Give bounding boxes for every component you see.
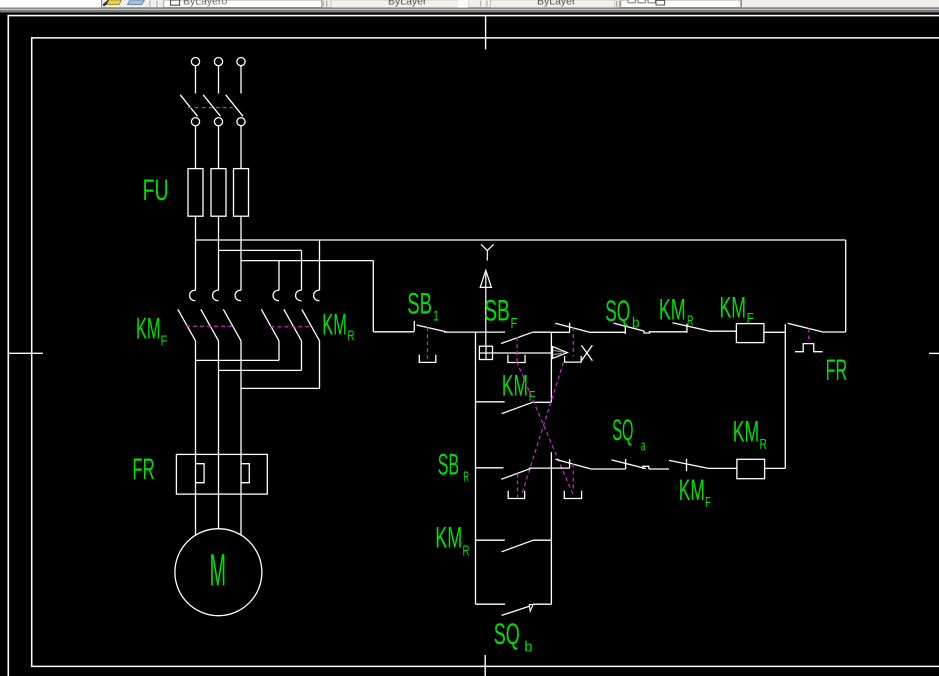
svg-text:FU: FU <box>143 174 169 207</box>
svg-text:KM: KM <box>733 416 760 449</box>
wire drop to KM_R middle contact <box>301 250 303 290</box>
SB_F NC actuator link (dashed) <box>572 464 574 491</box>
X snap marker <box>581 345 592 361</box>
start pushbutton SB_F (NO) <box>501 332 551 362</box>
contactor KM_F main contacts (3 poles) <box>178 290 241 341</box>
svg-text:ByLayer0: ByLayer0 <box>183 0 228 7</box>
SB_F actuator link (dashed) <box>516 337 518 362</box>
wire bus L2 horizontal <box>219 249 302 251</box>
svg-text:F: F <box>161 333 168 350</box>
SB_R actuator link (dashed) <box>517 474 519 498</box>
svg-text:R: R <box>760 436 768 453</box>
compound button SB_F NC contact (reverse branch) <box>555 459 625 498</box>
svg-text:ByLayer: ByLayer <box>388 0 427 7</box>
svg-text:FR: FR <box>133 453 155 486</box>
wire bus L3 horizontal <box>241 260 373 262</box>
knife switch QS blades and stubs <box>180 66 243 117</box>
wire drop to KM_R left contact <box>278 261 280 291</box>
svg-text:ByLayer: ByLayer <box>537 0 576 7</box>
fuse FU phase B <box>211 169 226 217</box>
mechanical interlock cross link A (dashed) <box>517 362 574 496</box>
coil KM_R <box>737 459 765 478</box>
svg-text:R: R <box>464 469 470 486</box>
wires from QS to fuses <box>196 126 242 169</box>
wire phase A vertical (fuse to KM_F contact) <box>195 216 197 290</box>
fuse FU phase A <box>188 169 203 217</box>
wire crossover joint 3 <box>241 387 320 389</box>
self-hold contact KM_F aux (NO) <box>476 402 552 414</box>
knife switch QS lower terminals <box>191 118 245 126</box>
svg-text:SQ: SQ <box>494 618 520 651</box>
svg-text:KM: KM <box>322 308 347 341</box>
thermal relay FR heater element phase A <box>196 464 205 483</box>
annotation up-arrow leader <box>480 270 491 346</box>
frame centering mark bottom <box>484 655 486 676</box>
svg-text:SB: SB <box>484 295 510 328</box>
frame centering mark top <box>485 16 487 50</box>
svg-text:KM: KM <box>502 369 528 402</box>
wire KM_R right contact bottom stub <box>319 341 321 389</box>
wire motor phase B vertical <box>218 341 220 529</box>
limit switch SQ_b NO contact (bottom) <box>476 604 552 615</box>
wire coil KM_R to FR contact rail <box>765 333 786 468</box>
svg-text:KM: KM <box>720 292 747 325</box>
control right rail from bus L1 <box>845 240 847 332</box>
FR contact link (dashed) <box>808 329 810 344</box>
svg-text:F: F <box>511 315 518 332</box>
svg-text:b: b <box>524 638 532 655</box>
annotation Y marker <box>481 244 494 260</box>
thermal relay FR heater element phase C <box>241 464 249 483</box>
wire KM_R left contact bottom stub <box>278 341 280 361</box>
svg-text:KM: KM <box>435 522 462 555</box>
toolbar icon: make layer current (yellow layer + arrow) <box>103 0 122 6</box>
svg-text:R: R <box>348 328 355 345</box>
supply terminals L1 L2 L3 <box>191 58 245 66</box>
wire crossover joint 2 <box>219 369 302 371</box>
toolbar separators and combo boxes with ByLayer text <box>150 0 742 7</box>
toolbar icon: layers (blue layer) <box>128 0 145 5</box>
wire crossover joint 1 <box>196 359 280 361</box>
self-hold contact KM_R aux (NO) <box>476 540 552 552</box>
interlock contact KM_F NC (reverse branch) <box>669 459 737 471</box>
cursor arrow marker <box>553 347 568 359</box>
svg-text:a: a <box>641 438 646 455</box>
svg-text:1: 1 <box>433 308 439 325</box>
toolbar strip (cropped CAD application toolbars) <box>0 0 939 13</box>
wire control feed to SB1 <box>373 331 414 333</box>
wire phase C vertical (fuse to KM_F contact) <box>240 216 242 290</box>
motor M circle <box>175 529 262 616</box>
node wire reverse branch junction <box>550 452 552 604</box>
control left rail <box>475 332 477 604</box>
compound button SB_R NC contact (forward branch) <box>551 323 625 362</box>
SB1 actuator link (dashed) <box>427 327 429 361</box>
thermal relay FR contact (NC) <box>785 323 845 352</box>
svg-text:SQ: SQ <box>605 295 630 328</box>
mechanical interlock cross link B (dashed) <box>522 362 564 494</box>
contactor KM_R main contacts (3 poles) <box>261 290 319 341</box>
thermal relay FR box <box>176 454 267 494</box>
svg-text:SQ: SQ <box>612 414 633 447</box>
coil KM_F <box>736 324 764 343</box>
frame centering mark left <box>8 352 43 354</box>
limit switch SQ_b NC contact (forward branch) <box>614 323 687 334</box>
svg-text:F: F <box>747 310 755 327</box>
node wire SB_F / KM_F aux junction <box>550 332 552 402</box>
wire phase B vertical (fuse to KM_F contact) <box>218 216 220 290</box>
svg-text:F: F <box>705 494 711 511</box>
wire motor phase A vertical <box>195 341 197 536</box>
svg-text:FR: FR <box>826 354 848 387</box>
wire coil KM_F to FR contact <box>764 331 785 333</box>
wire control tap down from L3 <box>372 261 374 332</box>
svg-text:M: M <box>210 545 227 596</box>
svg-text:R: R <box>687 313 694 330</box>
wire KM_R middle contact bottom stub <box>301 341 303 371</box>
stop pushbutton SB1 (NC) <box>414 321 505 363</box>
wire from node square to SB_F output node <box>479 352 551 354</box>
wire drop to KM_R right contact <box>319 240 321 290</box>
svg-text:R: R <box>463 543 470 560</box>
node junction square <box>479 346 492 359</box>
interlock contact KM_R NC (forward branch) <box>673 323 737 333</box>
frame centering mark right <box>929 352 939 354</box>
KM_R main linkage (dashed) <box>270 326 311 328</box>
svg-text:KM: KM <box>659 294 686 327</box>
fuse FU phase C <box>234 169 249 217</box>
start pushbutton SB_R (NO, reverse branch) <box>476 468 570 499</box>
svg-text:SB: SB <box>438 449 459 482</box>
svg-text:KM: KM <box>136 313 161 346</box>
wire motor phase C vertical <box>240 341 242 536</box>
wire bus L1 horizontal (feeds KM_R right contact and control rail) <box>196 239 846 241</box>
knife switch QS linkage (dashed) <box>188 107 233 109</box>
KM_F main linkage (dashed) <box>186 325 233 327</box>
svg-text:SB: SB <box>407 288 432 321</box>
svg-text:b: b <box>632 314 640 331</box>
SB_R NC actuator link (dashed) <box>572 327 574 356</box>
limit switch SQ_a NC contact (reverse branch) <box>612 459 670 469</box>
svg-text:KM: KM <box>679 474 705 507</box>
